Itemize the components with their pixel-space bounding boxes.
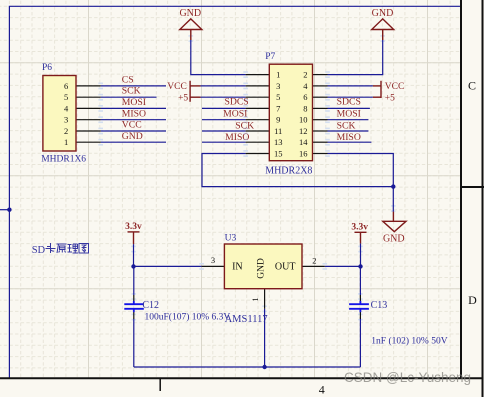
svg-text:VCC: VCC: [167, 82, 187, 92]
svg-text:SCK: SCK: [122, 86, 141, 97]
svg-text:+5: +5: [178, 94, 188, 104]
svg-text:10: 10: [299, 115, 308, 125]
svg-text:SCK: SCK: [337, 121, 356, 132]
svg-text:1nF (102) 10% 50V: 1nF (102) 10% 50V: [371, 336, 447, 347]
svg-text:15: 15: [274, 148, 283, 158]
svg-text:13: 13: [274, 137, 283, 147]
svg-text:D: D: [468, 293, 477, 307]
svg-text:P7: P7: [265, 52, 275, 62]
svg-text:12: 12: [299, 126, 308, 136]
svg-text:IN: IN: [232, 262, 243, 273]
svg-text:VCC: VCC: [122, 120, 142, 131]
svg-text:MISO: MISO: [337, 132, 361, 143]
svg-text:CSDN @Lc-Yusheng: CSDN @Lc-Yusheng: [344, 370, 471, 385]
svg-text:5: 5: [64, 92, 68, 102]
svg-text:1: 1: [64, 137, 68, 147]
svg-text:3.3v: 3.3v: [351, 223, 368, 233]
svg-text:MISO: MISO: [225, 132, 249, 143]
svg-text:C12: C12: [142, 300, 159, 311]
svg-text:MHDR1X6: MHDR1X6: [41, 155, 86, 165]
svg-text:P6: P6: [42, 63, 52, 73]
svg-text:14: 14: [299, 137, 308, 147]
svg-text:3: 3: [211, 255, 215, 265]
svg-text:3.3v: 3.3v: [125, 222, 142, 232]
svg-text:GND: GND: [257, 258, 267, 279]
svg-text:6: 6: [64, 81, 68, 91]
svg-text:C13: C13: [371, 300, 388, 311]
svg-text:MOSI: MOSI: [122, 97, 146, 108]
svg-text:4: 4: [319, 383, 325, 397]
svg-text:MOSI: MOSI: [337, 109, 361, 120]
svg-text:U3: U3: [225, 234, 237, 244]
svg-text:9: 9: [276, 115, 280, 125]
svg-text:2: 2: [303, 70, 307, 80]
svg-text:3: 3: [276, 81, 280, 91]
svg-text:GND: GND: [383, 234, 405, 245]
svg-text:GND: GND: [122, 131, 143, 142]
svg-text:MISO: MISO: [122, 108, 146, 119]
svg-text:SDCS: SDCS: [337, 97, 361, 108]
svg-text:MHDR2X8: MHDR2X8: [265, 166, 312, 177]
svg-text:6: 6: [303, 92, 307, 102]
svg-text:5: 5: [276, 92, 280, 102]
svg-text:GND: GND: [179, 8, 201, 19]
svg-text:2: 2: [64, 126, 68, 136]
svg-text:AMS1117: AMS1117: [225, 314, 268, 325]
svg-text:SDCS: SDCS: [224, 97, 248, 108]
svg-text:16: 16: [299, 148, 308, 158]
svg-text:11: 11: [274, 126, 282, 136]
svg-text:3: 3: [64, 115, 68, 125]
svg-text:C: C: [468, 79, 476, 93]
svg-text:VCC: VCC: [385, 82, 405, 92]
svg-text:1: 1: [276, 70, 280, 80]
svg-text:CS: CS: [122, 74, 134, 85]
svg-text:2: 2: [312, 256, 316, 266]
svg-text:GND: GND: [372, 8, 394, 19]
svg-text:+5: +5: [385, 94, 395, 104]
svg-text:100uF(107) 10% 6.3V: 100uF(107) 10% 6.3V: [145, 312, 231, 323]
svg-text:4: 4: [64, 103, 69, 113]
svg-text:OUT: OUT: [275, 262, 296, 273]
svg-text:SD: SD: [32, 245, 46, 256]
svg-text:MOSI: MOSI: [223, 109, 247, 120]
svg-text:7: 7: [276, 103, 280, 113]
svg-text:SCK: SCK: [235, 121, 254, 132]
svg-text:8: 8: [303, 103, 307, 113]
svg-text:1: 1: [250, 297, 260, 301]
